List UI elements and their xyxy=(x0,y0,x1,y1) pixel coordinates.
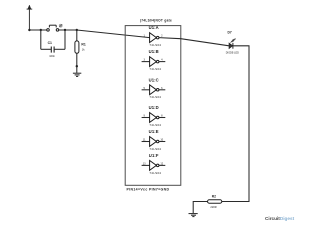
capacitor C1 xyxy=(51,47,54,53)
node: power/rail junction xyxy=(28,29,30,31)
LED D7 xyxy=(226,31,239,55)
svg-text:74LS04: 74LS04 xyxy=(149,171,161,175)
node: R1 top junction xyxy=(76,29,78,31)
svg-text:74LS04: 74LS04 xyxy=(149,95,161,99)
switch actuator icon xyxy=(59,24,62,27)
svg-text:(74LS04)NOT gate: (74LS04)NOT gate xyxy=(140,18,172,22)
svg-text:U1:F: U1:F xyxy=(149,153,159,158)
svg-text:U1:B: U1:B xyxy=(149,49,159,54)
inverter U1:D xyxy=(142,105,166,127)
inverter U1:F xyxy=(142,153,166,175)
IC box U1 (74LS04) xyxy=(125,26,181,186)
svg-text:U1:C: U1:C xyxy=(149,77,159,82)
inverter U1:B xyxy=(142,49,166,71)
resistor R2 xyxy=(208,200,222,203)
node: C1 right junction xyxy=(64,29,66,31)
inverter U1:E xyxy=(142,129,166,151)
node: R1 bottom xyxy=(76,65,78,67)
ground under R1 xyxy=(73,73,81,76)
inverter U1:C xyxy=(142,77,166,99)
wire: U1:A output to D7 (diagonal) xyxy=(159,38,229,46)
svg-text:CircuitDigest: CircuitDigest xyxy=(265,216,295,221)
svg-text:74LS04: 74LS04 xyxy=(149,123,161,127)
switch (push button) xyxy=(49,25,56,27)
svg-text:R2: R2 xyxy=(212,194,216,198)
svg-text:74LS04: 74LS04 xyxy=(149,43,161,47)
svg-text:U1:D: U1:D xyxy=(149,105,159,110)
wire: rail to U1:A input (diagonal) xyxy=(77,30,150,38)
svg-text:PIN14=Vcc PIN7=GND: PIN14=Vcc PIN7=GND xyxy=(127,187,170,191)
svg-text:U1:E: U1:E xyxy=(149,129,159,134)
svg-text:74LS04: 74LS04 xyxy=(149,147,161,151)
wire: top rail xyxy=(29,29,76,31)
ground at R2 xyxy=(189,214,198,217)
power VCC terminal xyxy=(27,9,33,30)
svg-text:DIODE-LED: DIODE-LED xyxy=(226,51,239,54)
wire: R2 to ground xyxy=(193,202,207,214)
svg-text:D7: D7 xyxy=(228,31,232,35)
svg-text:100n: 100n xyxy=(49,54,55,58)
svg-text:220R: 220R xyxy=(210,205,216,209)
resistor R1 xyxy=(76,30,78,41)
svg-text:74LS04: 74LS04 xyxy=(149,67,161,71)
inverter U1:A xyxy=(144,25,164,47)
node: C1 left junction xyxy=(40,29,42,31)
wire: D7 to right rail down to R2 xyxy=(222,46,249,202)
svg-text:R1: R1 xyxy=(81,42,85,46)
svg-text:U1:A: U1:A xyxy=(149,25,159,30)
capacitor C1 loop wires xyxy=(41,30,65,49)
svg-text:C1: C1 xyxy=(48,41,52,45)
